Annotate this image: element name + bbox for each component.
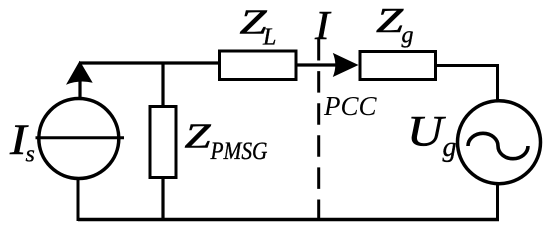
node PCC dashed line [317,39,320,223]
svg-text:I: I [314,2,332,48]
current arrow I [333,53,359,77]
source Ug circle [458,101,541,184]
resistor Zg [360,52,436,80]
wire bottom rail [78,218,499,222]
wire left vertical [77,178,80,221]
svg-text:Z: Z [185,117,212,156]
svg-text:s: s [26,142,35,168]
wire ZL to arrowhead [296,63,341,66]
Is arrow shaft [78,81,81,98]
svg-text:Z: Z [376,1,404,40]
sine wave in Ug [468,133,528,158]
svg-text:g: g [402,23,414,49]
wire Ug bottom stub [496,183,499,220]
wire ZPMSG bottom stub [161,177,164,220]
resistor ZPMSG [150,107,176,178]
resistor ZL [220,51,297,80]
source Is circle [39,99,119,179]
svg-text:PMSG: PMSG [210,138,268,165]
wire Zg to corner [436,66,498,102]
wire top rail left segment [79,61,220,64]
Is arrow head [66,61,93,85]
wire ZPMSG top stub [161,63,164,107]
svg-text:g: g [443,132,457,163]
svg-text:U: U [407,109,446,156]
svg-text:L: L [262,25,276,51]
svg-text:PCC: PCC [323,91,378,121]
Is chord line [36,136,125,139]
